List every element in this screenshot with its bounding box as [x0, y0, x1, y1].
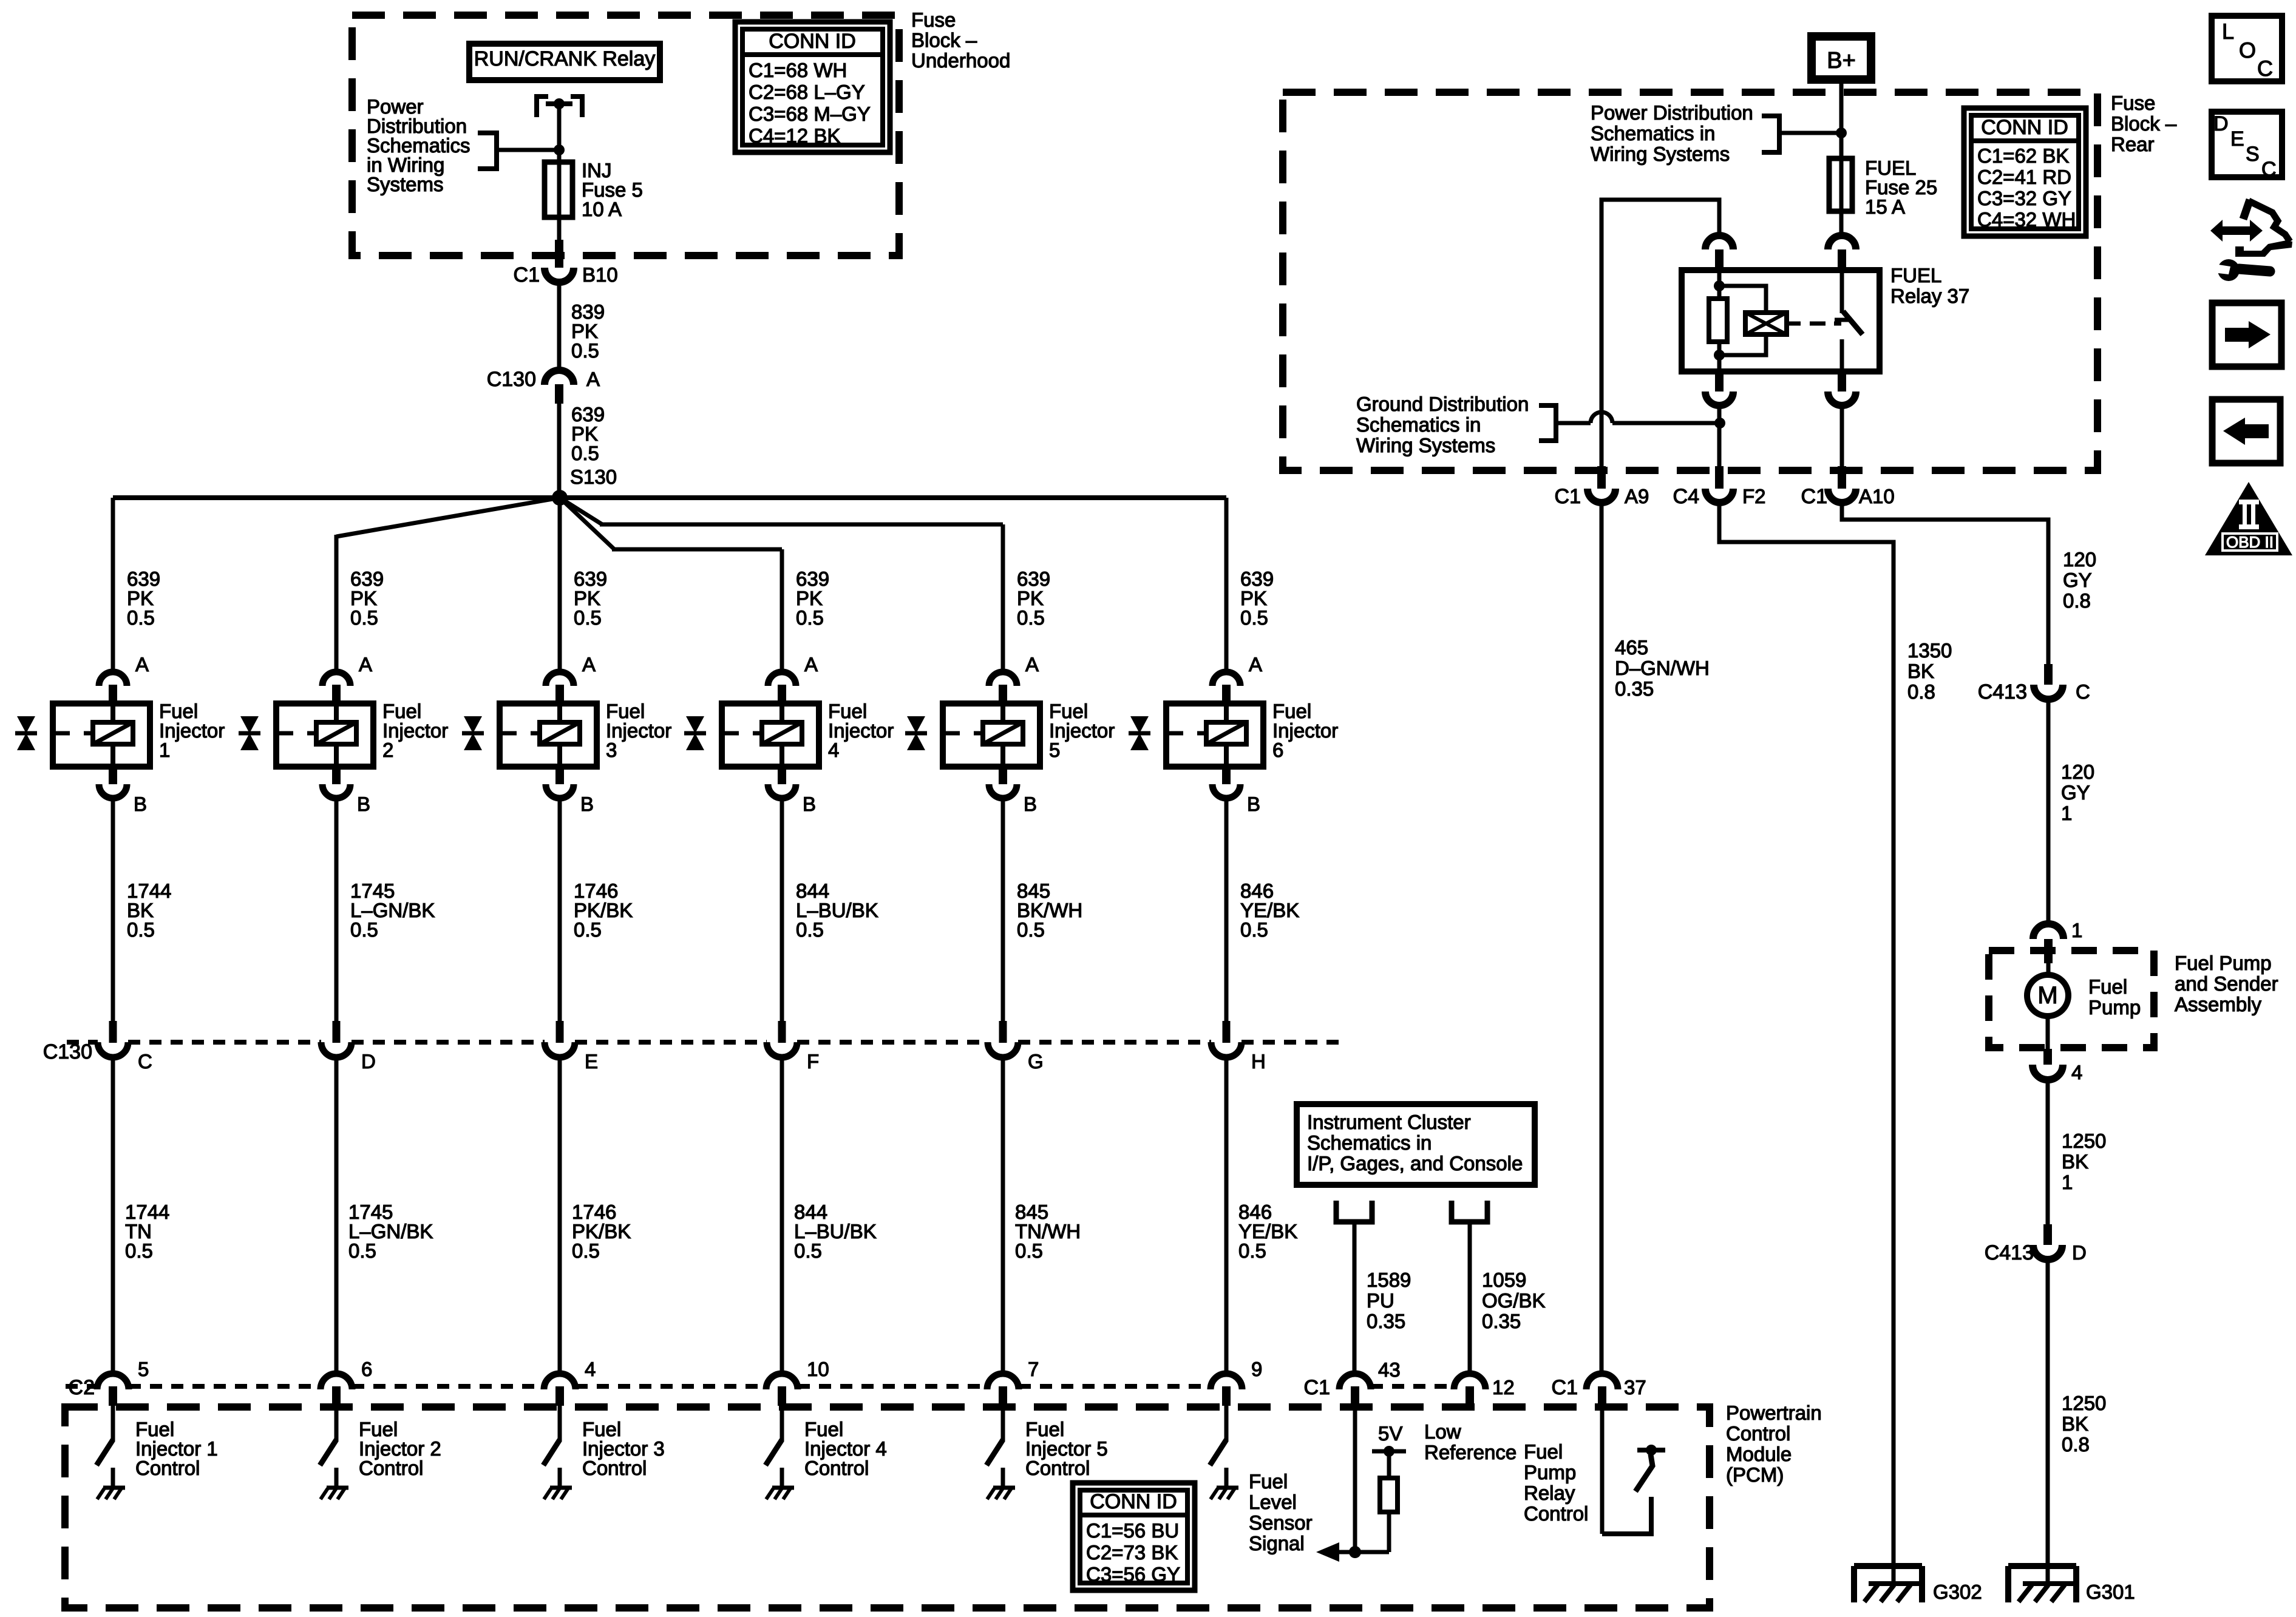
svg-text:Fuel: Fuel: [1249, 1470, 1288, 1493]
svg-text:1250: 1250: [2062, 1392, 2106, 1414]
svg-text:6: 6: [361, 1358, 372, 1380]
wire switch to connector A10: [1840, 405, 1844, 467]
node relay ground junction: [1714, 418, 1725, 429]
svg-text:10: 10: [807, 1358, 829, 1380]
svg-text:C1: C1: [1801, 485, 1827, 508]
relay coil-side top connector: [1705, 236, 1733, 249]
svg-text:F: F: [807, 1050, 819, 1073]
fuse F1 INJ Fuse 5 10A: [557, 150, 562, 162]
svg-text:Control: Control: [804, 1457, 869, 1479]
wire pin 43 to fuel level sensor signal node: [1353, 1406, 1357, 1552]
relay actuation dashed line: [1810, 322, 1826, 326]
svg-text:B: B: [134, 793, 147, 815]
svg-text:Pump: Pump: [1524, 1461, 1576, 1483]
connector C130 pin A: [545, 370, 574, 385]
svg-text:Fuel Pump: Fuel Pump: [2175, 952, 2272, 974]
svg-text:Block –: Block –: [2111, 112, 2177, 135]
svg-text:Relay 37: Relay 37: [1890, 285, 1969, 307]
fuel relay coil feed loop wire: [1601, 200, 1719, 467]
cluster connector bracket right: [1452, 1201, 1487, 1222]
fuel injector 3 control switch in PCM: [558, 1406, 562, 1441]
relay resistor: [1709, 299, 1727, 342]
wire to PCM pin 4: [558, 1057, 562, 1375]
svg-text:B: B: [357, 793, 370, 815]
svg-text:0.5: 0.5: [794, 1239, 822, 1262]
wire relay coil to ground distribution: [1717, 405, 1722, 467]
svg-text:0.5: 0.5: [571, 339, 599, 362]
svg-text:B: B: [1024, 793, 1037, 815]
fuel level sensor signal arrow: [1316, 1542, 1339, 1562]
svg-text:C2=68 L–GY: C2=68 L–GY: [749, 81, 865, 103]
svg-text:0.8: 0.8: [1907, 680, 1935, 703]
svg-text:3: 3: [606, 739, 617, 761]
relay coil (solenoid) symbol: [1719, 286, 1766, 313]
svg-text:43: 43: [1378, 1358, 1401, 1381]
svg-text:1250: 1250: [2062, 1130, 2106, 1152]
svg-text:A: A: [1025, 653, 1039, 676]
connector C1 pin B10: [555, 240, 563, 268]
connector C413 pin C: [2044, 664, 2053, 685]
svg-text:0.5: 0.5: [574, 918, 602, 941]
svg-text:0.5: 0.5: [125, 1239, 153, 1262]
icon next page arrow button: [2212, 303, 2281, 367]
svg-text:0.5: 0.5: [348, 1239, 376, 1262]
svg-text:CONN ID: CONN ID: [1090, 1490, 1177, 1513]
svg-text:10 A: 10 A: [582, 198, 622, 220]
relay switch contact: [1840, 270, 1844, 313]
fuel injector 2 FI2: [276, 703, 373, 767]
wire to PCM pin 7: [1001, 1057, 1005, 1375]
relay switch-side bottom connector: [1838, 371, 1846, 392]
svg-text:CONN ID: CONN ID: [1981, 116, 2068, 139]
wire 1059 OG/BK 0.35: [1468, 1222, 1472, 1375]
relay coil branch: [1717, 270, 1722, 299]
Powertrain Control Module dashed box: [65, 1407, 1710, 1608]
svg-text:37: 37: [1624, 1376, 1646, 1398]
connector C130 pin G: [999, 1021, 1007, 1043]
svg-text:C2=73 BK: C2=73 BK: [1086, 1541, 1178, 1564]
relay switch-side top connector: [1828, 236, 1856, 249]
svg-text:G302: G302: [1933, 1581, 1982, 1603]
connector C130 pin C: [109, 1021, 117, 1043]
svg-text:I/P, Gages, and Console: I/P, Gages, and Console: [1307, 1152, 1523, 1175]
svg-text:4: 4: [585, 1358, 596, 1380]
svg-text:0.5: 0.5: [571, 442, 599, 464]
svg-text:4: 4: [2071, 1061, 2082, 1083]
CONN ID table (fuse block rear): [1964, 108, 2086, 236]
connector C413 pin D: [2043, 1224, 2052, 1245]
svg-text:B10: B10: [582, 263, 618, 286]
svg-text:PU: PU: [1367, 1289, 1394, 1312]
svg-text:G: G: [1028, 1050, 1044, 1073]
wire 639 PK 0.5: [557, 404, 562, 498]
fuel injector 6 FI6: [1166, 703, 1263, 767]
connector C130 pin H: [1223, 1021, 1231, 1043]
connector C1 pin A10: [1838, 466, 1846, 489]
svg-text:1: 1: [2071, 919, 2082, 941]
svg-text:C3=56 GY: C3=56 GY: [1086, 1563, 1180, 1585]
svg-text:Fuel: Fuel: [2088, 975, 2127, 998]
svg-text:Powertrain: Powertrain: [1726, 1402, 1822, 1424]
fuel pump and sender assembly dashed box: [1989, 951, 2154, 1048]
svg-text:GY: GY: [2063, 569, 2092, 591]
connector pin 12: [1454, 1374, 1486, 1389]
fuel injector 2 pin B connector: [332, 767, 341, 784]
ground (injector 6 control): [1217, 1486, 1238, 1490]
wire branch to injector 4: [560, 498, 614, 549]
svg-text:2: 2: [382, 739, 393, 761]
svg-text:FUEL: FUEL: [1890, 264, 1941, 286]
wire 1589 PU 0.35: [1353, 1222, 1357, 1375]
svg-text:0.8: 0.8: [2062, 1433, 2090, 1456]
pull-up resistor: [1380, 1478, 1398, 1512]
svg-text:5: 5: [1049, 739, 1060, 761]
svg-text:0.5: 0.5: [127, 918, 155, 941]
node fuel level sensor signal: [1349, 1546, 1361, 1558]
svg-text:120: 120: [2061, 761, 2094, 783]
svg-text:(PCM): (PCM): [1726, 1463, 1784, 1486]
svg-text:4: 4: [828, 739, 839, 761]
svg-text:Control: Control: [582, 1457, 647, 1479]
wire 1350 BK 0.8 to G302: [1719, 503, 1894, 1567]
wire B+ to fuse: [1839, 84, 1844, 158]
wire 839 PK 0.5: [557, 282, 562, 372]
svg-text:0.35: 0.35: [1482, 1310, 1521, 1332]
svg-text:C1: C1: [1304, 1376, 1330, 1399]
RUN/CRANK Relay box U1: [469, 44, 660, 80]
svg-text:Systems: Systems: [367, 173, 444, 195]
svg-text:C3=32 GY: C3=32 GY: [1977, 187, 2071, 209]
B+ battery feed: [1812, 36, 1871, 80]
wire injector 1 to C130 pin C: [111, 798, 115, 1022]
ground (injector 4 control): [772, 1486, 794, 1490]
svg-text:5: 5: [138, 1358, 149, 1380]
svg-text:15 A: 15 A: [1865, 195, 1905, 218]
svg-text:A: A: [359, 653, 372, 676]
fuel pump motor M1: [2046, 963, 2051, 976]
svg-text:G301: G301: [2086, 1581, 2135, 1603]
icon LOC button: [2212, 16, 2282, 81]
svg-text:B: B: [1247, 793, 1260, 815]
svg-text:Fuse: Fuse: [911, 8, 956, 31]
svg-text:5V: 5V: [1378, 1422, 1402, 1445]
svg-text:0.5: 0.5: [574, 606, 602, 629]
wire 120 GY 0.8 to fuel pump: [1842, 503, 2048, 665]
svg-text:0.5: 0.5: [1240, 606, 1268, 629]
svg-text:BK: BK: [2062, 1150, 2088, 1173]
svg-text:0.8: 0.8: [2063, 589, 2091, 612]
FUEL Relay 37 box K1: [1682, 270, 1880, 371]
ground (injector 3 control): [550, 1486, 572, 1490]
svg-text:0.35: 0.35: [1615, 677, 1654, 700]
wire branch to injector 6: [1224, 498, 1229, 674]
svg-text:B: B: [580, 793, 594, 815]
svg-text:Low: Low: [1424, 1420, 1461, 1443]
svg-text:0.5: 0.5: [796, 918, 824, 941]
wire 120 GY 1: [2046, 699, 2051, 925]
svg-text:D–GN/WH: D–GN/WH: [1615, 657, 1710, 679]
wire branch to injector 5: [560, 498, 602, 524]
connector C1 pin A9: [1597, 466, 1606, 489]
fuel injector 6 pin B connector: [1222, 767, 1231, 784]
svg-text:CONN ID: CONN ID: [769, 30, 856, 53]
wire pin 37 to fuel pump relay control: [1600, 1406, 1605, 1534]
wire to PCM pin 10: [780, 1057, 784, 1375]
svg-text:OG/BK: OG/BK: [1482, 1289, 1546, 1312]
wire relay to junction: [557, 104, 562, 152]
svg-text:Control: Control: [1025, 1457, 1090, 1479]
svg-text:A: A: [804, 653, 818, 676]
CONN ID table (fuse block underhood): [735, 22, 890, 152]
svg-text:C: C: [138, 1050, 152, 1073]
svg-text:A: A: [582, 653, 596, 676]
svg-text:C1=56 BU: C1=56 BU: [1086, 1519, 1179, 1542]
relay coil-side bottom connector: [1715, 371, 1724, 392]
connector C130 pin E: [556, 1021, 564, 1043]
wire 465 D-GN/WH 0.35 to PCM pin 37: [1600, 503, 1604, 1375]
connector C130 pin F: [778, 1021, 786, 1043]
svg-text:0.35: 0.35: [1367, 1310, 1405, 1332]
svg-text:0.5: 0.5: [350, 606, 378, 629]
ground G302: [1854, 1563, 1922, 1569]
svg-text:0.5: 0.5: [1240, 918, 1268, 941]
svg-text:M: M: [2037, 982, 2057, 1009]
svg-text:D: D: [2072, 1241, 2087, 1264]
svg-text:D: D: [361, 1050, 376, 1073]
svg-text:1350: 1350: [1907, 639, 1952, 662]
wire injector 4 to C130 pin F: [780, 798, 784, 1022]
svg-text:C1=68 WH: C1=68 WH: [749, 59, 847, 81]
svg-text:C: C: [2076, 680, 2090, 703]
svg-text:0.5: 0.5: [350, 918, 378, 941]
svg-text:Schematics in: Schematics in: [1356, 413, 1481, 436]
svg-text:Signal: Signal: [1249, 1532, 1305, 1554]
wire to PCM pin 5: [111, 1057, 115, 1375]
svg-text:L: L: [2222, 19, 2234, 44]
fuel injector 5 control switch in PCM: [1001, 1406, 1005, 1441]
svg-text:A: A: [1249, 653, 1262, 676]
svg-text:Control: Control: [1726, 1422, 1790, 1445]
svg-text:Fuel: Fuel: [1524, 1440, 1563, 1463]
connector C130 pin D: [333, 1021, 341, 1043]
svg-text:C2=41 RD: C2=41 RD: [1977, 166, 2071, 188]
5V reference tap: [1372, 1449, 1406, 1454]
svg-text:Control: Control: [1524, 1502, 1588, 1525]
svg-text:0.5: 0.5: [1017, 606, 1045, 629]
svg-text:GY: GY: [2061, 781, 2090, 804]
fuel injector 4 FI4: [722, 703, 819, 767]
svg-text:7: 7: [1028, 1358, 1039, 1380]
wire to PCM pin 6: [335, 1057, 339, 1375]
wire branch to injector 1: [111, 498, 115, 674]
Instrument Cluster schematic box: [1297, 1104, 1535, 1185]
fuel injector 6 control switch in PCM: [1224, 1406, 1229, 1441]
svg-text:Wiring Systems: Wiring Systems: [1591, 143, 1730, 165]
wire S130 bus: [113, 495, 1226, 500]
svg-text:E: E: [2230, 127, 2244, 151]
svg-text:A10: A10: [1859, 485, 1895, 507]
svg-text:C4=12 BK: C4=12 BK: [749, 124, 840, 147]
connector pin 1 (fuel pump): [2033, 924, 2063, 939]
svg-text:D: D: [2213, 112, 2229, 135]
svg-text:1059: 1059: [1482, 1269, 1526, 1291]
node power distribution junction (rear): [1836, 127, 1847, 138]
cluster connector bracket left: [1336, 1201, 1372, 1222]
fuel injector 1 FI1: [53, 703, 150, 767]
wire fuse to connector C1 B10: [557, 217, 562, 243]
wire 1250 BK 0.8 to G301: [2046, 1259, 2050, 1567]
CONN ID table (PCM): [1073, 1483, 1195, 1590]
fuel injector 5 FI5: [943, 703, 1040, 767]
svg-text:E: E: [585, 1050, 598, 1073]
svg-text:and Sender: and Sender: [2175, 972, 2278, 995]
fuel injector 2 control switch in PCM: [335, 1406, 339, 1441]
svg-text:Pump: Pump: [2088, 996, 2141, 1019]
svg-text:465: 465: [1615, 636, 1648, 659]
fuse block rear dashed box: [1283, 92, 2097, 470]
wire branch to injector 2: [336, 498, 560, 537]
svg-text:C130: C130: [487, 368, 536, 391]
svg-text:OBD II: OBD II: [2226, 533, 2274, 551]
svg-text:Block –: Block –: [911, 29, 977, 52]
svg-text:C1: C1: [1555, 485, 1581, 508]
svg-text:Schematics in: Schematics in: [1307, 1131, 1432, 1154]
connector C4 pin F2: [1715, 466, 1724, 489]
svg-text:12: 12: [1492, 1376, 1515, 1398]
svg-text:0.5: 0.5: [1238, 1239, 1266, 1262]
svg-text:C4=32 WH: C4=32 WH: [1977, 208, 2076, 231]
svg-text:B: B: [803, 793, 816, 815]
wire injector 6 to C130 pin H: [1224, 798, 1229, 1022]
svg-text:Wiring Systems: Wiring Systems: [1356, 434, 1495, 456]
node power feed junction: [554, 144, 565, 155]
wire injector 2 to C130 pin D: [335, 798, 339, 1022]
svg-text:C1: C1: [1552, 1376, 1578, 1399]
svg-text:1: 1: [2062, 1171, 2073, 1193]
svg-text:C: C: [2261, 158, 2277, 181]
svg-text:A9: A9: [1625, 485, 1649, 507]
svg-text:Power Distribution: Power Distribution: [1591, 101, 1753, 124]
svg-text:Level: Level: [1249, 1491, 1297, 1513]
icon vehicle data with wrench: [2210, 220, 2263, 242]
svg-text:Sensor: Sensor: [1249, 1511, 1313, 1534]
svg-text:6: 6: [1272, 739, 1283, 761]
ground (injector 1 control): [103, 1486, 125, 1490]
ground (injector 2 control): [327, 1486, 348, 1490]
fuel injector 5 pin B connector: [999, 767, 1007, 784]
icon previous page arrow button: [2212, 399, 2280, 463]
connector pin 4 (fuel pump): [2043, 1049, 2052, 1065]
svg-text:C3=68 M–GY: C3=68 M–GY: [749, 103, 871, 125]
fuel injector 1 control switch in PCM: [111, 1406, 115, 1441]
svg-text:C1=62 BK: C1=62 BK: [1977, 144, 2069, 167]
svg-text:Relay: Relay: [1524, 1482, 1575, 1504]
wire to PCM pin 9: [1224, 1057, 1229, 1375]
svg-text:S130: S130: [570, 466, 617, 488]
svg-text:1589: 1589: [1367, 1269, 1411, 1291]
svg-text:Assembly: Assembly: [2175, 993, 2262, 1015]
wire injector 3 to C130 pin E: [558, 798, 562, 1022]
ground (injector 5 control): [993, 1486, 1015, 1490]
svg-text:A: A: [135, 653, 149, 676]
fuel injector 1 pin B connector: [109, 767, 117, 784]
svg-text:1: 1: [159, 739, 170, 761]
svg-text:C: C: [2257, 56, 2273, 81]
icon OBD II: [2205, 482, 2292, 555]
svg-text:BK: BK: [1907, 660, 1934, 682]
svg-text:Reference: Reference: [1424, 1441, 1517, 1463]
svg-text:120: 120: [2063, 548, 2096, 571]
svg-text:Instrument Cluster: Instrument Cluster: [1307, 1111, 1471, 1133]
wire fuse to relay switch: [1839, 211, 1844, 237]
fuel injector 3 pin B connector: [555, 767, 564, 784]
svg-text:0.5: 0.5: [1015, 1239, 1043, 1262]
svg-text:9: 9: [1251, 1358, 1262, 1380]
svg-text:C413: C413: [1985, 1241, 2034, 1264]
svg-text:F2: F2: [1742, 485, 1766, 507]
wire injector 5 to C130 pin G: [1001, 798, 1005, 1022]
svg-text:S: S: [2246, 143, 2260, 166]
fuel injector 4 pin B connector: [778, 767, 786, 784]
svg-text:C413: C413: [1978, 680, 2027, 703]
svg-text:Fuse: Fuse: [2111, 92, 2155, 114]
svg-text:Module: Module: [1726, 1443, 1792, 1465]
svg-text:O: O: [2239, 38, 2256, 63]
svg-text:0.5: 0.5: [1017, 918, 1045, 941]
wire branch to injector 3: [558, 498, 562, 674]
svg-text:Ground Distribution: Ground Distribution: [1356, 393, 1529, 415]
svg-text:Schematics in: Schematics in: [1591, 122, 1715, 144]
fuse F2 FUEL Fuse 25 15A: [1829, 158, 1852, 211]
fuel injector 3 FI3: [500, 703, 597, 767]
svg-text:Control: Control: [135, 1457, 200, 1479]
fuel injector 4 control switch in PCM: [780, 1406, 784, 1441]
fuse block underhood dashed box: [352, 15, 899, 256]
svg-text:C4: C4: [1673, 485, 1699, 508]
svg-text:A: A: [586, 368, 600, 390]
svg-text:Rear: Rear: [2111, 133, 2155, 155]
relay pin terminal symbol: [537, 97, 548, 117]
svg-text:Underhood: Underhood: [911, 49, 1010, 72]
svg-text:0.5: 0.5: [127, 606, 155, 629]
svg-text:0.5: 0.5: [796, 606, 824, 629]
svg-text:B+: B+: [1827, 48, 1856, 73]
svg-text:Control: Control: [359, 1457, 423, 1479]
icon DESC button: [2212, 112, 2282, 177]
svg-text:C1: C1: [514, 263, 540, 286]
ground G301: [2008, 1563, 2076, 1569]
svg-text:0.5: 0.5: [572, 1239, 600, 1262]
connector row C1 dashed line: [1371, 1384, 1454, 1389]
wire 1250 BK 1: [2046, 1080, 2050, 1225]
svg-text:BK: BK: [2062, 1412, 2088, 1435]
svg-text:H: H: [1251, 1050, 1266, 1073]
fuel pump relay control switch: [1602, 1497, 1651, 1534]
svg-text:RUN/CRANK Relay: RUN/CRANK Relay: [474, 47, 656, 70]
svg-text:1: 1: [2061, 802, 2072, 824]
